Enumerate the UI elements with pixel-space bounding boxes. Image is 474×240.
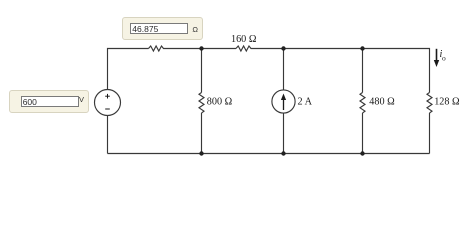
wire top segment node A to node B [165, 48, 237, 50]
voltage source minus sign [105, 108, 110, 110]
current arrow i_o [434, 49, 439, 67]
junction node top current source [281, 46, 285, 50]
junction node bottom 800 [199, 151, 203, 155]
wire branch current source bottom [283, 113, 285, 153]
svg-text:160 Ω: 160 Ω [231, 34, 257, 45]
svg-text:2 A: 2 A [298, 96, 313, 107]
svg-text:800 Ω: 800 Ω [207, 96, 233, 107]
junction node bottom current source [281, 151, 285, 155]
wire branch 800 ohm bottom [201, 113, 203, 154]
wire branch 480 ohm bottom [362, 113, 364, 154]
resistor R3 800 ohm [199, 93, 204, 114]
unit label ohm [192, 26, 198, 34]
wire branch 480 ohm top [362, 49, 364, 93]
wire below voltage source [107, 116, 109, 154]
resistor R4 480 ohm [360, 93, 365, 114]
voltage source V1 circle [95, 90, 121, 116]
resistor R5 128 ohm [427, 93, 432, 114]
resistor R2 160 ohm [236, 46, 252, 51]
svg-text:128 Ω: 128 Ω [434, 96, 460, 107]
wire top left segment [108, 49, 149, 90]
wire branch current source top [283, 49, 285, 91]
svg-text:o: o [442, 54, 446, 63]
svg-text:480 Ω: 480 Ω [369, 96, 395, 107]
input box R1 value 46.875 [122, 17, 204, 41]
wire branch 128 ohm bottom [429, 113, 431, 154]
wire bottom [108, 153, 430, 155]
unit label V [79, 96, 84, 104]
junction node top 480 [360, 46, 364, 50]
input box V1 value 600 [9, 90, 89, 113]
current source I1 arrow [281, 94, 286, 111]
voltage source plus sign [105, 94, 110, 99]
junction node bottom 480 [360, 151, 364, 155]
resistor R1 (46.875 ohm) [149, 46, 165, 51]
wire branch 800 ohm top [201, 49, 203, 93]
junction node top 800 [199, 46, 203, 50]
current source I1 circle [272, 90, 295, 113]
wire top segment to right corner [252, 49, 430, 93]
